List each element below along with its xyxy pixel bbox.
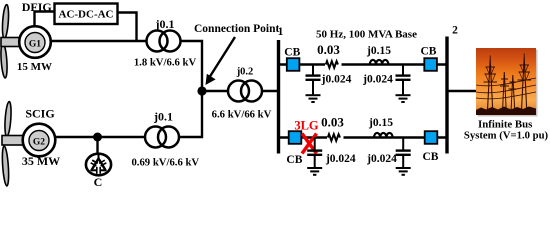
svg-text:SCIG: SCIG xyxy=(25,107,54,121)
circuit breaker CB (top right) xyxy=(421,46,437,71)
svg-text:j0.15: j0.15 xyxy=(366,45,391,57)
nacelle of SCIG turbine xyxy=(2,136,25,146)
wire bus 2 to infinite bus xyxy=(448,90,476,92)
wire bottom line xyxy=(280,136,446,138)
circuit breaker CB (bottom right) xyxy=(423,131,439,163)
wind turbine blades (DFIG) xyxy=(0,4,9,78)
inductor j0.15 (top line) xyxy=(370,60,389,65)
svg-text:50 Hz, 100 MVA Base: 50 Hz, 100 MVA Base xyxy=(316,28,417,40)
svg-text:G1: G1 xyxy=(29,40,41,50)
svg-text:15 MW: 15 MW xyxy=(17,61,52,73)
svg-text:35 MW: 35 MW xyxy=(22,154,60,168)
arrow to connection point xyxy=(206,37,236,85)
wire connection point to transformer T3 xyxy=(202,90,229,92)
wire T3 to bus 1 xyxy=(262,90,279,92)
svg-text:System (V=1.0 pu): System (V=1.0 pu) xyxy=(464,130,549,142)
svg-text:AC-DC-AC: AC-DC-AC xyxy=(59,8,114,20)
ground (top line, left) xyxy=(306,95,321,102)
svg-text:j0.024: j0.024 xyxy=(366,153,397,165)
wire T2 to connection point xyxy=(179,91,202,137)
svg-text:j0.1: j0.1 xyxy=(155,17,175,31)
capacitor bank C xyxy=(86,154,111,176)
svg-text:G2: G2 xyxy=(33,138,45,148)
circuit breaker CB (top left) xyxy=(284,47,300,71)
nacelle of DFIG turbine xyxy=(1,38,24,47)
wire G1 stator to transformer T1 xyxy=(51,40,147,42)
svg-text:j0.2: j0.2 xyxy=(236,67,254,78)
wire AC-DC-AC output xyxy=(118,13,137,42)
bus 1 xyxy=(277,40,280,154)
wire to capacitor C xyxy=(96,137,98,155)
svg-text:3LG: 3LG xyxy=(294,119,319,133)
svg-text:0.03: 0.03 xyxy=(321,115,344,130)
shunt capacitor (bottom line, left) xyxy=(307,138,322,168)
wind turbine blades (SCIG) xyxy=(1,101,12,186)
svg-text:6.6 kV/66 kV: 6.6 kV/66 kV xyxy=(212,109,272,121)
generator G1 xyxy=(19,26,51,58)
svg-text:Infinite Bus: Infinite Bus xyxy=(478,119,532,131)
svg-text:CB: CB xyxy=(423,151,439,163)
shunt capacitor (top line, right) xyxy=(396,65,411,95)
svg-text:1.8 kV/6.6 kV: 1.8 kV/6.6 kV xyxy=(134,57,197,69)
transformer T1 j0.1 xyxy=(147,31,181,52)
transformer T3 j0.2 xyxy=(228,81,262,102)
svg-text:1: 1 xyxy=(278,26,284,38)
svg-text:j0.15: j0.15 xyxy=(368,117,393,129)
ground (bottom line, right) xyxy=(396,168,411,175)
circuit breaker CB (bottom left) xyxy=(286,131,302,166)
junction node (capacitor tap) xyxy=(93,133,102,142)
infinite bus photo (transmission towers) xyxy=(476,48,538,117)
bus 2 xyxy=(445,37,448,154)
wire top line xyxy=(280,63,446,65)
ground (top line, right) xyxy=(396,95,411,102)
transformer T2 j0.1 xyxy=(145,127,179,148)
svg-text:j0.1: j0.1 xyxy=(153,110,173,124)
svg-text:2: 2 xyxy=(452,25,458,37)
generator G2 xyxy=(23,124,56,157)
svg-text:CB: CB xyxy=(421,46,437,58)
svg-text:0.03: 0.03 xyxy=(317,42,340,57)
svg-text:0.69 kV/6.6 kV: 0.69 kV/6.6 kV xyxy=(131,157,199,169)
svg-text:j0.024: j0.024 xyxy=(362,74,393,86)
svg-text:j0.024: j0.024 xyxy=(321,74,352,86)
svg-text:Connection Point: Connection Point xyxy=(194,23,279,35)
svg-text:C: C xyxy=(94,175,103,189)
fault 3LG marker xyxy=(294,119,319,154)
wire G1 rotor to AC-DC-AC xyxy=(35,12,55,27)
shunt capacitor (top line, left) xyxy=(306,65,321,95)
resistor 0.03 (bottom line) xyxy=(327,132,344,144)
svg-text:j0.024: j0.024 xyxy=(325,153,356,165)
wire G2 to transformer T2 xyxy=(55,136,145,138)
inductor j0.15 (bottom line) xyxy=(374,133,393,138)
converter AC-DC-AC xyxy=(55,4,118,25)
ground (bottom line, left) xyxy=(307,168,322,175)
svg-text:CB: CB xyxy=(286,154,302,166)
wire T1 to connection point xyxy=(181,41,203,91)
resistor 0.03 (top line) xyxy=(325,59,342,71)
node connection point xyxy=(197,86,206,95)
svg-text:CB: CB xyxy=(284,47,300,59)
shunt capacitor (bottom line, right) xyxy=(396,138,411,168)
